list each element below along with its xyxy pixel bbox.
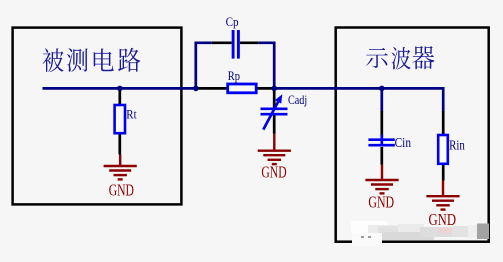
ground below Rin bbox=[426, 181, 459, 210]
wire: main horizontal from source to left node bbox=[43, 87, 197, 90]
node: Cin tap junction bbox=[379, 86, 385, 92]
node: right of Rp/Cp (Cadj tap) bbox=[271, 86, 277, 92]
svg-text:GND: GND bbox=[429, 210, 457, 229]
pin: Cin bottom lead bbox=[380, 147, 383, 165]
wire: Cp branch left riser and top run bbox=[196, 43, 212, 89]
svg-text:GND: GND bbox=[109, 180, 134, 199]
watermark smudge (blurred logo) bbox=[351, 221, 489, 246]
ground below Cadj bbox=[258, 134, 291, 165]
pin: Cp right lead bbox=[240, 41, 258, 44]
svg-text:Rin: Rin bbox=[449, 138, 465, 153]
wire: Cin branch drop bbox=[380, 88, 383, 112]
ground below Cin bbox=[365, 165, 398, 194]
svg-text:GND: GND bbox=[261, 162, 286, 181]
pin: Cin top lead bbox=[380, 111, 383, 137]
svg-text:Cin: Cin bbox=[395, 136, 411, 151]
svg-text:GND: GND bbox=[368, 192, 394, 211]
pin: Rt bottom lead bbox=[118, 134, 121, 155]
box: circuit-under-test (被测电路) bbox=[13, 28, 182, 205]
wire: Cp branch top run right and right riser bbox=[258, 43, 274, 89]
ground below Rt bbox=[104, 155, 137, 180]
pin: Rp right lead bbox=[257, 87, 274, 90]
label 示波器 (oscilloscope) bbox=[366, 46, 434, 70]
svg-text:Rp: Rp bbox=[228, 69, 240, 83]
pin: Rt top lead bbox=[118, 88, 121, 104]
svg-text:Cp: Cp bbox=[226, 14, 239, 29]
pin: Cp left lead bbox=[212, 41, 232, 44]
label 被测电路 (circuit under test) bbox=[43, 48, 141, 72]
capacitor Cin bbox=[368, 135, 394, 147]
resistor Rp bbox=[228, 84, 257, 93]
pin: Rin top lead bbox=[442, 111, 445, 134]
node: Rt tap junction bbox=[117, 86, 123, 92]
box: oscilloscope (示波器) bbox=[336, 28, 489, 242]
node: left of Rp/Cp bbox=[193, 86, 199, 92]
resistor Rin bbox=[438, 135, 448, 164]
pin: Cadj top lead bbox=[273, 88, 276, 108]
svg-text:Cadj: Cadj bbox=[288, 93, 307, 107]
svg-text:Rt: Rt bbox=[126, 107, 137, 121]
pin: Rin bottom lead bbox=[442, 165, 445, 181]
capacitor Cp bbox=[233, 30, 238, 59]
resistor Rt bbox=[115, 105, 125, 133]
variable capacitor Cadj bbox=[261, 101, 288, 129]
wire: right node to oscilloscope and Rin corner drop bbox=[274, 88, 443, 112]
pin: Rp left lead bbox=[196, 87, 227, 90]
pin: Cadj bottom lead bbox=[273, 115, 276, 134]
